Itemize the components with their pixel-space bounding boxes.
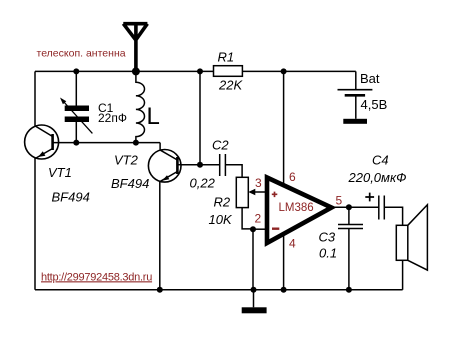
svg-text:LM386: LM386 xyxy=(279,202,314,214)
wire R1 left vertical xyxy=(199,71,201,164)
wire tank rail mid xyxy=(53,142,161,144)
svg-text:L: L xyxy=(147,103,160,130)
svg-text:C3: C3 xyxy=(319,230,336,245)
svg-text:VT1: VT1 xyxy=(48,165,72,180)
capacitor C3 xyxy=(338,207,363,289)
svg-text:телескоп. антенна: телескоп. антенна xyxy=(37,47,126,59)
wire C2 to R2 top xyxy=(225,165,242,178)
node junction C3 bottom xyxy=(346,287,352,293)
svg-text:6: 6 xyxy=(289,170,296,184)
svg-text:VT2: VT2 xyxy=(114,153,139,168)
capacitor C4 xyxy=(379,196,385,220)
wire VT1 emitter vertical xyxy=(34,158,36,290)
svg-text:5: 5 xyxy=(336,194,343,208)
pin minus (inside) xyxy=(272,227,279,229)
wire C4 to speaker xyxy=(384,207,402,225)
node junction collector R1 feed xyxy=(197,162,203,168)
node junction ground stub xyxy=(251,287,257,293)
wire pin6 vertical xyxy=(283,71,285,186)
svg-text:BF494: BF494 xyxy=(111,176,149,191)
capacitor C1 (variable) xyxy=(60,98,92,134)
svg-text:3: 3 xyxy=(255,176,262,190)
node junction R1 left xyxy=(197,68,203,74)
svg-text:0,22: 0,22 xyxy=(190,176,216,191)
pin plus (inside) xyxy=(272,192,278,198)
wire bottom rail xyxy=(35,289,403,291)
transistor VT2 xyxy=(148,150,181,183)
node junction pin5 xyxy=(346,204,352,210)
node junction VT2 emitter bottom xyxy=(157,287,163,293)
node junction top C1 xyxy=(73,68,79,74)
antenna ANT xyxy=(123,22,147,71)
wire VT2 base drop xyxy=(159,143,161,151)
svg-text:4: 4 xyxy=(289,236,296,250)
inductor L xyxy=(136,71,145,142)
wire speaker bottom xyxy=(402,260,404,290)
resistor R1 xyxy=(214,66,243,77)
svg-text:2: 2 xyxy=(255,211,262,225)
wire top rail xyxy=(35,70,356,72)
node junction C1 bottom xyxy=(73,140,79,146)
wire pin4 vertical xyxy=(283,234,285,290)
ground GND battery xyxy=(343,119,367,124)
speaker LS xyxy=(396,205,427,270)
svg-text:R1: R1 xyxy=(218,50,235,65)
svg-text:10K: 10K xyxy=(209,212,233,227)
svg-text:Bat: Bat xyxy=(360,71,380,86)
svg-text:BF494: BF494 xyxy=(52,190,90,205)
transistor VT1 xyxy=(25,125,59,159)
svg-text:22пФ: 22пФ xyxy=(98,111,127,125)
node junction pin4 bottom xyxy=(281,287,287,293)
wire VT2 emitter vertical xyxy=(159,182,161,290)
polarity plus C4 xyxy=(365,193,374,202)
battery Bat xyxy=(338,71,373,118)
svg-text:4,5В: 4,5В xyxy=(361,97,388,112)
ground GND main xyxy=(242,290,267,314)
svg-text:C2: C2 xyxy=(212,137,229,152)
wire pin2 to node xyxy=(253,228,267,230)
wire pin2 node down xyxy=(252,229,254,290)
op-amp U1 LM386 xyxy=(267,178,332,244)
svg-text:220,0мкФ: 220,0мкФ xyxy=(348,170,407,185)
svg-text:0.1: 0.1 xyxy=(319,245,337,260)
wire VT2 collector to C2 xyxy=(181,164,219,166)
wire pin5 output xyxy=(332,206,379,208)
svg-text:R2: R2 xyxy=(214,195,231,210)
svg-text:http://299792458.3dn.ru: http://299792458.3dn.ru xyxy=(41,271,152,283)
wire C1 bottom lead xyxy=(75,122,77,143)
node junction L bottom xyxy=(133,140,139,146)
svg-text:22K: 22K xyxy=(218,78,243,93)
node junction antenna xyxy=(132,67,140,75)
potentiometer R2 xyxy=(236,177,267,207)
node junction pin2 xyxy=(250,226,256,232)
wire VT1 collector vertical xyxy=(34,71,36,126)
node junction R1 right pin6 xyxy=(281,68,287,74)
wire C1 top lead xyxy=(75,71,77,105)
capacitor C2 xyxy=(220,154,226,176)
svg-text:C4: C4 xyxy=(372,153,389,168)
wire R2 bottom lead xyxy=(242,208,253,229)
